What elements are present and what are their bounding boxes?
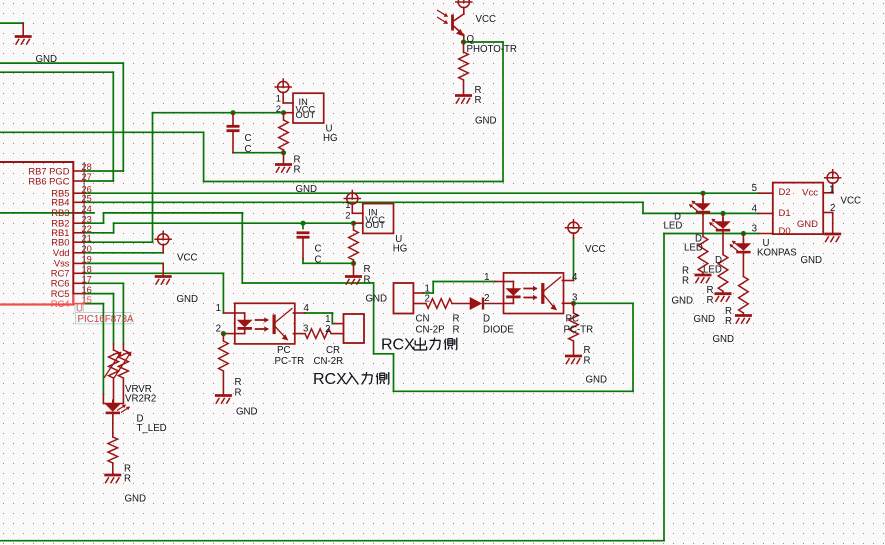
svg-text:R: R [584,356,591,367]
svg-text:R: R [364,275,371,286]
svg-text:23: 23 [82,214,92,224]
svg-text:17: 17 [82,275,92,285]
svg-text:1: 1 [216,303,221,314]
svg-text:R: R [453,325,460,336]
svg-text:T_LED: T_LED [137,423,167,434]
svg-text:R: R [707,295,714,306]
svg-text:R: R [475,95,482,106]
svg-text:R: R [124,474,131,485]
svg-text:4: 4 [752,204,758,215]
svg-text:OUT: OUT [296,110,316,120]
svg-text:PHOTO-TR: PHOTO-TR [467,44,517,55]
svg-text:GND: GND [586,375,608,386]
svg-text:R: R [584,345,591,356]
svg-text:LED: LED [664,221,683,232]
svg-text:24: 24 [82,204,92,214]
svg-text:RCX: RCX [313,371,347,388]
svg-text:LED: LED [684,243,703,254]
svg-text:GND: GND [125,494,147,505]
svg-text:RB6 PGC: RB6 PGC [28,175,69,186]
svg-text:PC: PC [277,345,290,356]
svg-text:1: 1 [276,94,281,105]
svg-text:R: R [235,377,242,388]
svg-text:PC-TR: PC-TR [564,325,594,336]
svg-text:CN-2R: CN-2R [314,356,344,367]
svg-text:PC: PC [566,314,579,325]
svg-text:GND: GND [296,184,318,195]
svg-text:VCC: VCC [841,196,861,207]
svg-text:PC-TR: PC-TR [275,356,305,367]
svg-text:1: 1 [829,185,834,196]
svg-text:GND: GND [366,294,388,305]
svg-text:Vdd: Vdd [53,247,70,258]
svg-text:15: 15 [82,295,92,305]
svg-text:D: D [483,314,490,325]
svg-text:R: R [453,314,460,325]
svg-text:VCC: VCC [585,244,605,255]
svg-text:RCX: RCX [381,337,415,354]
svg-text:C: C [245,144,252,155]
svg-text:KONPAS: KONPAS [757,248,797,259]
svg-text:D1: D1 [779,208,791,219]
svg-text:CR: CR [326,345,340,356]
svg-text:19: 19 [82,255,92,265]
svg-text:3: 3 [752,224,757,235]
svg-text:R: R [725,316,732,327]
svg-text:D0: D0 [779,226,791,237]
svg-text:2: 2 [325,324,330,335]
svg-text:28: 28 [82,162,92,172]
svg-text:RB0: RB0 [51,237,69,248]
svg-text:16: 16 [82,285,92,295]
svg-text:2: 2 [216,324,221,335]
svg-text:VR2R2: VR2R2 [125,394,156,405]
svg-text:GND: GND [713,334,735,345]
svg-text:GND: GND [797,219,818,230]
svg-text:PIC16F873A: PIC16F873A [78,314,135,325]
svg-text:R: R [682,276,689,287]
svg-text:25: 25 [82,194,92,204]
svg-text:GND: GND [177,294,199,305]
svg-text:RC4: RC4 [51,298,70,309]
svg-text:1: 1 [484,272,489,283]
svg-text:HG: HG [393,244,408,255]
svg-text:3: 3 [572,293,577,304]
svg-text:R: R [235,388,242,399]
svg-text:C: C [245,133,252,144]
svg-text:2: 2 [484,293,489,304]
svg-text:1: 1 [345,200,350,211]
svg-text:CN-2P: CN-2P [416,325,445,336]
svg-text:GND: GND [801,255,823,266]
svg-text:2: 2 [276,104,281,115]
svg-text:GND: GND [475,116,497,127]
svg-text:VCC: VCC [476,14,496,25]
svg-text:RB4: RB4 [51,197,69,208]
svg-text:D2: D2 [779,187,791,198]
svg-text:OUT: OUT [365,220,385,230]
svg-text:HG: HG [323,133,338,144]
svg-text:4: 4 [572,272,578,283]
svg-text:18: 18 [82,265,92,275]
svg-text:GND: GND [694,314,716,325]
svg-text:C: C [315,255,322,266]
svg-text:2: 2 [345,211,350,222]
svg-text:20: 20 [82,244,92,254]
svg-text:GND: GND [36,54,58,65]
svg-text:GND: GND [672,296,694,307]
svg-text:R: R [294,165,301,176]
svg-text:DIODE: DIODE [483,325,514,336]
svg-text:U: U [76,303,83,314]
svg-text:27: 27 [82,172,92,182]
svg-text:GND: GND [236,407,258,418]
svg-text:VCC: VCC [177,253,197,264]
svg-text:LED: LED [703,265,722,276]
svg-text:Vcc: Vcc [802,188,818,199]
svg-text:CN: CN [416,314,430,325]
svg-text:R: R [364,264,371,275]
svg-text:5: 5 [752,183,757,194]
svg-text:C: C [315,244,322,255]
svg-text:21: 21 [82,233,92,243]
